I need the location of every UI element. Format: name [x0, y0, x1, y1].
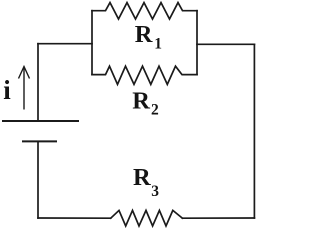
current arrow i: shaft: [23, 67, 25, 110]
svg-text:3: 3: [151, 183, 159, 200]
resistor R2: [92, 66, 197, 84]
svg-text:R: R: [133, 164, 151, 191]
current arrow i: head: [19, 67, 30, 79]
resistor R1: [92, 3, 197, 19]
svg-text:1: 1: [154, 35, 162, 52]
node B: right junction bar of parallel combination: [196, 11, 198, 75]
battery: short negative plate: [22, 140, 57, 142]
wire: left bottom vertical from battery negative plate to bottom wire: [37, 141, 39, 218]
wire: bottom right horizontal from R3 to right vertical: [182, 217, 254, 219]
wire: right horizontal from right junction bar to right side: [197, 43, 254, 45]
wire: right vertical: [253, 44, 255, 218]
resistor R3: [111, 210, 183, 226]
node A: left junction bar of parallel combination: [91, 11, 93, 75]
svg-text:i: i: [3, 75, 11, 105]
svg-text:2: 2: [151, 101, 159, 118]
svg-text:R: R: [132, 88, 150, 115]
wire: top horizontal from left wire to left junction bar: [38, 43, 92, 45]
wire: bottom left horizontal from battery to R3: [38, 217, 111, 219]
battery: long positive plate: [2, 120, 79, 122]
wire: left top vertical from top node to battery positive plate: [37, 44, 39, 120]
svg-text:R: R: [135, 21, 153, 48]
